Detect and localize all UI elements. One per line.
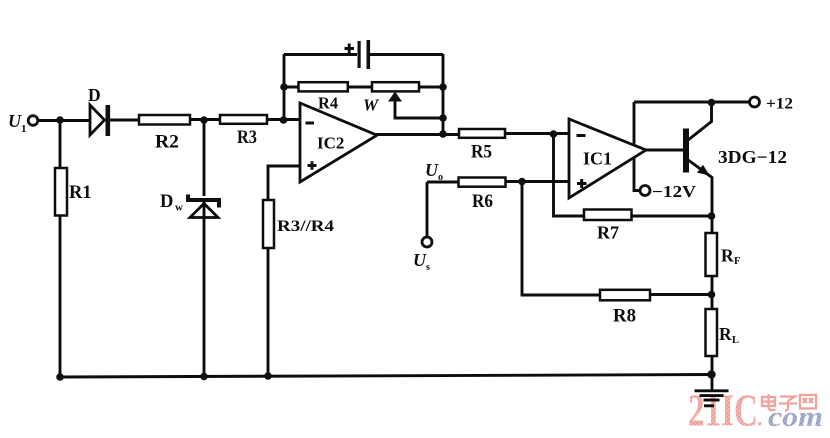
svg-text:3DG−12: 3DG−12 xyxy=(718,147,787,167)
svg-text:U: U xyxy=(413,250,427,270)
svg-text:IC1: IC1 xyxy=(583,149,612,169)
svg-text:L: L xyxy=(732,335,739,346)
svg-text:U: U xyxy=(8,111,22,131)
svg-text:−12V: −12V xyxy=(652,182,696,201)
svg-text:R: R xyxy=(721,246,734,266)
svg-text:D: D xyxy=(88,85,101,105)
svg-text:R4: R4 xyxy=(318,94,338,113)
svg-text:s: s xyxy=(426,262,430,273)
svg-text:R: R xyxy=(719,324,732,344)
svg-text:F: F xyxy=(734,256,740,267)
svg-text:R8: R8 xyxy=(613,306,636,327)
svg-text:R2: R2 xyxy=(155,133,179,153)
svg-text:1: 1 xyxy=(21,123,27,135)
svg-text:w: w xyxy=(175,202,183,214)
svg-text:R7: R7 xyxy=(597,223,619,243)
svg-text:R5: R5 xyxy=(471,143,492,163)
svg-text:D: D xyxy=(160,192,173,212)
svg-text:+12: +12 xyxy=(766,96,793,113)
svg-text:R3: R3 xyxy=(237,128,257,148)
svg-text:com: com xyxy=(768,402,823,433)
svg-text:R1: R1 xyxy=(69,183,92,203)
svg-text:R3//R4: R3//R4 xyxy=(277,218,334,235)
svg-text:U: U xyxy=(425,160,439,180)
svg-text:IC2: IC2 xyxy=(317,134,344,153)
svg-text:.: . xyxy=(757,406,763,431)
svg-text:21IC: 21IC xyxy=(688,386,758,436)
svg-text:o: o xyxy=(438,172,443,183)
svg-text:W: W xyxy=(363,96,380,115)
svg-text:R6: R6 xyxy=(472,192,493,212)
